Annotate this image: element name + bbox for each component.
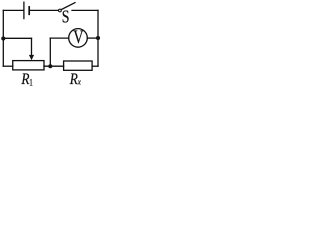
wire voltmeter right lead xyxy=(87,37,98,39)
voltmeter V circle xyxy=(69,29,88,48)
label S (switch) xyxy=(62,8,70,27)
wire switch to top-right corner xyxy=(72,9,98,11)
svg-text:R: R xyxy=(20,71,29,88)
battery long plate (positive) xyxy=(23,2,25,18)
wire wiper branch vertical (slider shaft) xyxy=(31,38,33,56)
label V (voltmeter) xyxy=(73,26,83,47)
resistor Rx box xyxy=(64,61,93,70)
wire top-left from battery to left rail xyxy=(3,9,23,11)
resistor R1 box (rheostat) xyxy=(13,61,44,70)
svg-text:R: R xyxy=(69,71,78,88)
wire R1 right terminal to junction xyxy=(44,65,64,67)
label R1 xyxy=(20,71,29,88)
label R1 subscript 1 xyxy=(29,78,33,88)
svg-text:S: S xyxy=(62,8,70,27)
wire voltmeter riser from junction node xyxy=(49,38,51,66)
arrowhead of rheostat slider xyxy=(29,55,34,60)
switch S blade (open) xyxy=(62,3,76,10)
wire voltmeter left lead xyxy=(50,37,68,39)
wire left rail xyxy=(2,10,4,66)
wire battery to switch xyxy=(30,9,58,11)
label Rx xyxy=(69,71,78,88)
node dot junction between R1 and Rx xyxy=(48,64,52,68)
svg-text:x: x xyxy=(77,77,82,87)
wire right rail xyxy=(97,10,99,66)
svg-text:1: 1 xyxy=(29,78,33,88)
battery short plate (negative) xyxy=(28,7,30,14)
svg-text:V: V xyxy=(73,26,83,47)
wire wiper branch horizontal xyxy=(3,37,31,39)
label Rx subscript x xyxy=(77,77,82,87)
wire left rail to R1 left terminal xyxy=(3,65,12,67)
wire right rail to Rx right terminal xyxy=(92,65,98,67)
node dot on right rail xyxy=(96,36,100,40)
node dot on left rail xyxy=(1,36,5,40)
switch S pivot circle xyxy=(59,9,62,12)
